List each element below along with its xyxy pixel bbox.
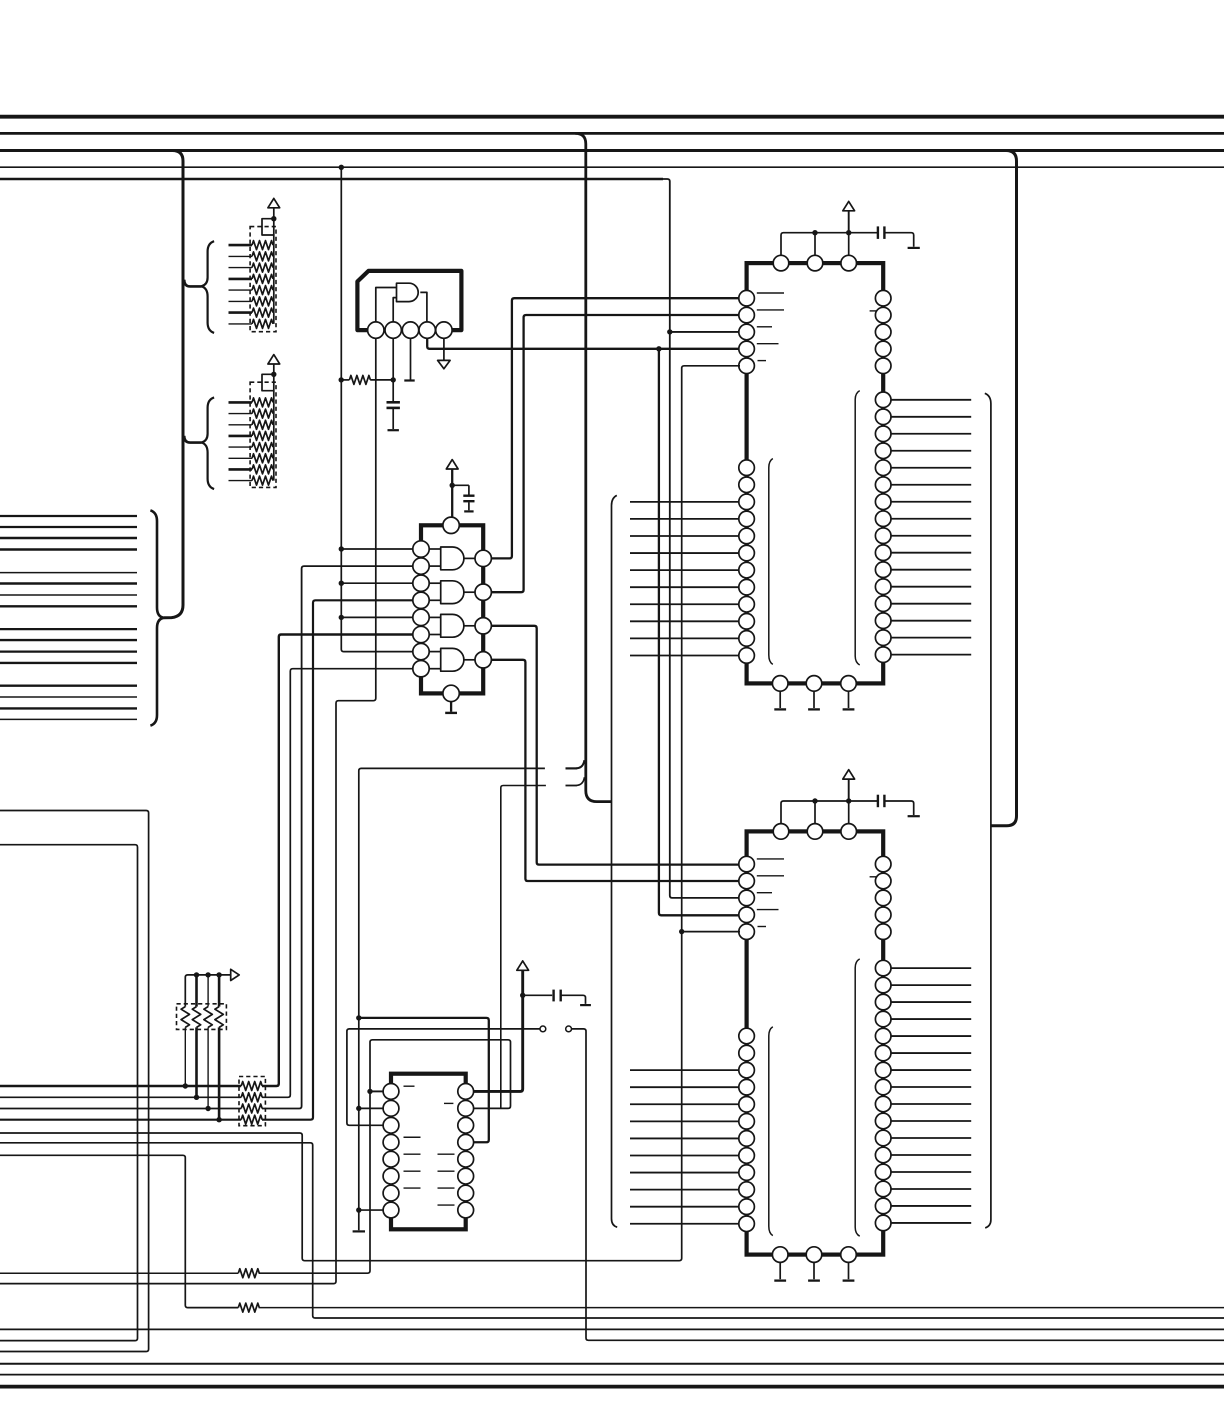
wire RN1 lead 2 — [229, 255, 253, 257]
resistor network RN3 dashed outline — [177, 1004, 227, 1030]
wire U2 gate3 input B — [429, 634, 441, 636]
wire U4 right wire 15 — [891, 1205, 971, 1207]
node U3 VCC rail junction 1 — [812, 230, 817, 235]
node U3 lower-left pin 10 — [739, 614, 755, 630]
wire U2 gate2 input A — [429, 582, 441, 584]
wire U3 lower-left wire 10 — [630, 620, 740, 622]
wire bottom bus line B — [0, 1363, 1224, 1365]
wire U1 output to IC1 pin 4 — [427, 338, 740, 349]
wire U4 right wire 14 — [891, 1188, 971, 1190]
node U3 lower-left pin 4 — [739, 511, 755, 527]
wire bottom bus 1307 right segment — [259, 1307, 1224, 1309]
wire RN2 brace to trunk — [184, 436, 201, 443]
wire U4 right wire 13 — [891, 1171, 971, 1173]
resistor RN2-7 — [252, 465, 273, 474]
wire U3 lower-left wire 7 — [630, 569, 740, 571]
wire U4 lower-left wire 5 — [630, 1103, 740, 1105]
wire data bus line 15 — [0, 707, 137, 709]
wire y768 line and x358.8 vertical to ground — [359, 768, 545, 1230]
wire U3 pin-top3 stem — [848, 233, 850, 255]
node U5 left pin 8 — [383, 1202, 399, 1218]
node RN3 rail junction x=219.1 — [216, 972, 221, 977]
wire loop rectangle A — [0, 811, 149, 1352]
wire U3 right wire 14 — [891, 620, 971, 622]
ground bar U3 bottom pin2 — [808, 708, 820, 710]
wire U3 right wire 13 — [891, 603, 971, 605]
resistor RN1-7 — [252, 308, 273, 317]
wire U5 pin L3 to switch — [347, 1029, 540, 1125]
node U4 VCC rail junction 1 — [812, 798, 817, 803]
ground bar U3 bottom pin1 — [774, 708, 786, 710]
wire U1 gate input 2 to pin 2 — [393, 298, 396, 322]
bracket U3 inner right — [855, 391, 860, 665]
wire U2 gate1 output — [464, 557, 475, 559]
wire U1 pin2 down — [392, 338, 394, 402]
node U4 top pin 3 — [841, 824, 857, 840]
node U4 lower-right pin 15 — [875, 1198, 891, 1214]
wire U2 out1 to IC1 pin1 — [475, 298, 740, 558]
wire U3 right wire 5 — [891, 467, 971, 469]
node U3 lower-left pin 9 — [739, 596, 755, 612]
IC U5 body — [391, 1074, 466, 1230]
wire C1 to ground — [392, 408, 394, 429]
node U4 left pin 1 — [739, 856, 755, 872]
node U3 lower-right pin 5 — [875, 460, 891, 476]
wire RN1 lead 5 — [229, 289, 253, 291]
node U3 lower-left pin 5 — [739, 528, 755, 544]
wire U4 right wire 1 — [891, 967, 971, 969]
node R1 / common vertical junction — [339, 377, 344, 382]
node U4 lower-right pin 14 — [875, 1181, 891, 1197]
wire RN2 lead 4 — [229, 435, 253, 438]
node U3 lower-right pin 12 — [875, 579, 891, 595]
wire R1 left lead — [341, 379, 349, 381]
wire U2 VCC stem — [451, 469, 453, 517]
capacitor C5 right plate — [560, 990, 562, 1002]
node U3 left pin 5 — [739, 358, 755, 374]
wire U3 right wire 12 — [891, 586, 971, 588]
node RN2 common — [271, 372, 276, 377]
wire data bus line 10 — [0, 639, 137, 641]
ground bar U1 pin3 — [404, 379, 414, 381]
wire RN1 brace to trunk — [184, 280, 201, 287]
node U3 lower-left pin 12 — [739, 648, 755, 664]
wire RN2 common rail — [273, 374, 275, 480]
capacitor C1 bottom plate — [387, 407, 400, 410]
wire U2 gate2 output — [464, 591, 475, 593]
wire switch to bottom bus line — [572, 1029, 1224, 1340]
wire U3 right wire 8 — [891, 518, 971, 520]
node U1 pin 2 — [385, 322, 401, 338]
node RN3 rail junction x=196.5 — [194, 972, 199, 977]
node U4 lower-left pin 2 — [739, 1045, 755, 1061]
wire U4 right wire 11 — [891, 1137, 971, 1139]
node U1 pin 4 — [419, 322, 435, 338]
resistor network RN1 dashed outline — [250, 227, 276, 332]
wire U3 left pin4 label stub — [757, 343, 779, 345]
wire R1 right lead — [370, 379, 393, 381]
node junction line4 / common vertical — [339, 165, 344, 170]
node U3 lower-right pin 2 — [875, 409, 891, 425]
wire bus trunk right (x=1016.5) with hook to bracket — [991, 151, 1017, 826]
node U3 lower-left pin 2 — [739, 477, 755, 493]
wire top bus line 3 — [0, 149, 1224, 152]
node U3 top pin 2 — [807, 255, 823, 271]
wire U2 out2 to IC1 pin2 — [475, 315, 740, 592]
wire U5 right label stub — [438, 1170, 455, 1172]
wire C2 stem bottom — [468, 502, 470, 510]
wire U5 pin L2 — [359, 1107, 385, 1109]
node U4 VCC rail junction 2 — [846, 798, 851, 803]
node U4 right upper pin 2 — [875, 873, 891, 889]
wire top bus line 1 — [0, 115, 1224, 119]
wire U5 right label stub — [438, 1204, 455, 1206]
wire y768 right stub — [566, 767, 578, 769]
wire U5 pin R1 to VCC — [472, 970, 523, 1091]
bracket U4 inner left — [769, 1027, 773, 1236]
wire bus line y=1097.3 left — [0, 1096, 241, 1098]
wire top bus line 5 — [0, 178, 663, 180]
wire C2 stem top — [468, 485, 470, 494]
resistor RN2-5 — [252, 443, 273, 452]
node U3 right upper pin 3 — [875, 324, 891, 340]
resistor RN4-3 — [241, 1104, 262, 1113]
node U3 top pin 3 — [841, 255, 857, 271]
wire U3 bottom pin3 ground stem — [848, 691, 850, 708]
gate U2 AND 1 — [441, 547, 464, 570]
brace RN2 — [201, 397, 214, 489]
IC U2 quad AND body — [421, 525, 483, 693]
wire U5 left label stub — [404, 1187, 421, 1189]
node U5 left pin 7 — [383, 1185, 399, 1201]
wire U4 right wire 7 — [891, 1069, 971, 1071]
wire U3 right wire 15 — [891, 637, 971, 639]
resistor RN1-1 — [252, 241, 273, 250]
wire U4 right wire 16 — [891, 1222, 971, 1224]
node U2 input pin 1 — [413, 541, 429, 557]
node U4 lower-left pin 11 — [739, 1199, 755, 1215]
wire U2 input from common net y=617.4 — [341, 616, 413, 618]
wire RN3 top rail — [185, 975, 230, 1007]
node U3 lower-right pin 3 — [875, 426, 891, 442]
wire U4 right wire 2 — [891, 984, 971, 986]
wire RN3 resistor to bus y=1097.3 — [195, 1027, 198, 1097]
node U3 lower-left pin 1 — [739, 460, 755, 476]
wire U3 left pin1 label stub — [757, 292, 784, 294]
node U4 left pin 3 — [739, 890, 755, 906]
node U4 right upper pin 4 — [875, 907, 891, 923]
wire bottom bus line D (thick) — [0, 1385, 1224, 1389]
node common input junction y=617.4 — [339, 615, 344, 620]
node U3 lower-right pin 13 — [875, 596, 891, 612]
wire data bus line 6 — [0, 582, 137, 584]
wire data bus line 8 — [0, 605, 137, 607]
node U3 lower-right pin 6 — [875, 477, 891, 493]
node U3 lower-right pin 8 — [875, 511, 891, 527]
node U3 lower-right pin 4 — [875, 443, 891, 459]
wire U3 VCC rail — [781, 233, 878, 255]
wire y768 merge curve into trunk — [566, 760, 585, 768]
capacitor U4 decoupling left plate — [877, 795, 879, 808]
wire U4 VCC rail — [781, 801, 878, 823]
wire bottom bus line C — [0, 1374, 1224, 1376]
node U2 input pin 2 — [413, 558, 429, 574]
wire common input net from line4 to U2 pin7 — [341, 167, 413, 651]
node U5 L1 junction — [367, 1089, 372, 1094]
node U4 lower-right pin 6 — [875, 1045, 891, 1061]
wire U3 right wire 7 — [891, 501, 971, 503]
wire data bus line 13 — [0, 685, 137, 687]
node U3 lower-right pin 14 — [875, 613, 891, 629]
resistor R7 in-line — [238, 1303, 259, 1312]
resistor R1 — [349, 375, 370, 384]
node U4 bottom pin 1 — [772, 1247, 788, 1263]
wire data bus line 2 — [0, 526, 137, 528]
node U5 left pin 1 — [383, 1084, 399, 1100]
wire data bus line 1 — [0, 515, 137, 517]
brace left data bus — [150, 510, 163, 725]
capacitor U4 decoupling right plate — [883, 795, 885, 808]
wire U4 lower-left wire 3 — [630, 1069, 740, 1071]
wire U4 pin-top2 stem — [814, 801, 816, 823]
bracket U3 inner left — [769, 459, 773, 665]
resistor RN1-2 — [252, 252, 273, 261]
node U3 left pin 4 — [739, 341, 755, 357]
node RN3 / bus junction (185.3,1086) — [183, 1083, 188, 1088]
ground bar C5 — [580, 1004, 591, 1006]
wire U3 bottom pin1 ground stem — [779, 691, 781, 708]
node U2 input pin 3 — [413, 575, 429, 591]
wire U5 left label stub — [404, 1136, 421, 1138]
wire RN2 lead 8 — [229, 480, 253, 482]
node U4 lower-left pin 7 — [739, 1131, 755, 1147]
wire data bus line 14 — [0, 696, 137, 698]
resistor RN1-4 — [252, 274, 273, 283]
wire U2 gate4 input B — [429, 668, 441, 670]
node U3 lower-left pin 6 — [739, 545, 755, 561]
resistor RN3-3 — [204, 1007, 212, 1028]
node U4 left pin 2 — [739, 873, 755, 889]
node U4 lower-left pin 1 — [739, 1028, 755, 1044]
wire data bus line 3 — [0, 537, 137, 539]
gate U2 AND 3 — [441, 614, 464, 637]
wire U4 right pin2 label stub — [870, 876, 880, 878]
node U3 lower-right pin 10 — [875, 545, 891, 561]
wire IC1 pin 3 from line 5 — [670, 331, 740, 333]
node U5 right pin 3 — [458, 1117, 474, 1133]
wire U3 right wire 6 — [891, 484, 971, 486]
wire bottom bus line A — [0, 1328, 1224, 1330]
node U3 left pin 3 — [739, 324, 755, 340]
wire top bus line 4 — [0, 166, 1224, 168]
node common input junction y=583.2 — [339, 581, 344, 586]
wire U4 right wire 9 — [891, 1103, 971, 1105]
bracket right IC wire group — [985, 393, 991, 1228]
resistor RN3-1 — [181, 1007, 189, 1028]
wire RN2 common pin box — [262, 374, 274, 390]
capacitor U3 decoupling right plate — [883, 226, 885, 239]
gate U2 AND 4 — [441, 648, 464, 671]
wire U2 input from common net y=583.2 — [341, 582, 413, 584]
resistor RN4-4 — [241, 1115, 262, 1124]
wire data bus line 11 — [0, 650, 137, 652]
node U2 output pin 3 — [475, 618, 491, 634]
wire U3 right wire 10 — [891, 552, 971, 554]
wire U4 lower-left wire 4 — [630, 1086, 740, 1088]
wire U3 lower-left wire 11 — [630, 637, 740, 639]
wire RN1 lead 8 — [229, 323, 253, 325]
wire y785 merge curve into trunk — [566, 777, 585, 785]
node U4 right upper pin 3 — [875, 890, 891, 906]
wire bus trunk left (x=183) from line3 to brace — [164, 151, 183, 618]
node U4 lower-left pin 9 — [739, 1165, 755, 1181]
wire RN3 resistor to bus y=1108.5 — [207, 1027, 209, 1108]
wire data bus line 7 — [0, 594, 137, 596]
wire RN1 common rail — [273, 219, 275, 324]
capacitor U3 decoupling left plate — [877, 226, 879, 239]
wire U4 lower-left wire 10 — [630, 1189, 740, 1191]
wire U3 lower-left wire 9 — [630, 603, 740, 605]
wire U2 gate4 input A — [429, 651, 441, 653]
ground bar U4 bottom pin1 — [774, 1279, 786, 1281]
wire U3 cap to ground — [884, 233, 913, 247]
wire loop rectangle B — [0, 845, 138, 1341]
wire U1 gate output to pin 4 — [420, 292, 427, 322]
wire bus line y=1086 left — [0, 1085, 241, 1087]
node U5 left pin 5 — [383, 1151, 399, 1167]
node U3 lower-right pin 9 — [875, 528, 891, 544]
wire U5 right label stub — [438, 1187, 455, 1189]
node U4 lower-left pin 12 — [739, 1216, 755, 1232]
resistor RN2-2 — [252, 409, 273, 418]
wire U4 bottom pin2 ground stem — [813, 1262, 815, 1279]
node U3 bottom pin 2 — [806, 676, 822, 692]
wire U5 left label stub — [404, 1153, 421, 1155]
node junction x682 / IC2 pin5 — [679, 929, 684, 934]
wire RN1 lead 6 — [229, 300, 253, 302]
wire U5 right label stub — [438, 1153, 455, 1155]
wire data bus line 9 — [0, 628, 137, 630]
wire y785 right stub — [566, 785, 578, 787]
node U1 pin 5 — [436, 322, 452, 338]
wire U1 gate input 1 to pin 1 — [376, 288, 397, 323]
wire line 5 corner down to IC2 pin 3 — [663, 179, 740, 898]
wire bottom bus 1273 left segment — [0, 1272, 238, 1274]
wire U4 right wire 4 — [891, 1018, 971, 1020]
capacitor C5 left plate — [552, 990, 554, 1002]
wire U3 right wire 11 — [891, 569, 971, 571]
ground bar U4 bottom pin2 — [808, 1279, 820, 1281]
wire U2 gate1 input B — [429, 565, 441, 567]
wire U4 cap to ground — [884, 801, 913, 815]
power VCC symbol RN1 — [268, 198, 280, 207]
wire U3 VCC stem — [848, 211, 850, 233]
ground bar U4 bottom pin3 — [843, 1279, 855, 1281]
power VCC symbol U2 — [446, 460, 458, 469]
node U3 lower-right pin 7 — [875, 494, 891, 510]
wire RN2 VCC stem — [273, 364, 275, 374]
wire U3 right wire 9 — [891, 535, 971, 537]
wire U4 pin-top3 stem — [848, 801, 850, 823]
wire U4 right wire 12 — [891, 1154, 971, 1156]
power VCC symbol RN2 — [268, 355, 280, 364]
resistor R6 in-line — [238, 1269, 259, 1278]
wire U4 bottom pin1 ground stem — [779, 1262, 781, 1279]
node U4 lower-left pin 6 — [739, 1114, 755, 1130]
node U4 lower-right pin 2 — [875, 977, 891, 993]
wire bus trunk center (x=585.8) from line 2 with hook — [575, 133, 611, 801]
wire U2 out4 to IC2 pin2 — [475, 660, 740, 881]
wire U2 gate3 output — [464, 625, 475, 627]
node U3 lower-left pin 11 — [739, 631, 755, 647]
resistor RN2-8 — [252, 476, 273, 485]
wire U3 lower-left wire 6 — [630, 552, 740, 554]
wire U3 lower-left wire 8 — [630, 586, 740, 588]
wire U4 lower-left wire 11 — [630, 1206, 740, 1208]
node U4 lower-right pin 9 — [875, 1096, 891, 1112]
wire data bus line 5 — [0, 572, 137, 574]
wire VCC to C5 — [523, 994, 553, 996]
node U4 lower-right pin 4 — [875, 1011, 891, 1027]
node junction line5 / IC1 pin3 wire — [667, 329, 672, 334]
node U2 VCC junction — [450, 483, 455, 488]
node U3 lower-right pin 1 — [875, 392, 891, 408]
wire U4 left pin3 label stub — [757, 892, 772, 894]
node U2 output pin 1 — [475, 550, 491, 566]
wire U4 right wire 3 — [891, 1001, 971, 1003]
wire RN1 common pin box — [262, 219, 274, 235]
node RN3 / bus junction (208.1,1108.5) — [205, 1106, 210, 1111]
resistor RN3-2 — [192, 1007, 200, 1028]
node U5 right pin 4 — [458, 1134, 474, 1150]
resistor RN1-6 — [252, 297, 273, 306]
wire U4 left pin5 label stub — [758, 926, 767, 928]
node U4 lower-right pin 10 — [875, 1113, 891, 1129]
wire RN2 lead 2 — [229, 413, 253, 415]
node U2 input pin 4 — [413, 592, 429, 608]
node U3 VCC rail junction 2 — [846, 230, 851, 235]
wire U5 pin L1 — [370, 1090, 385, 1092]
node U1 pin 1 — [368, 322, 384, 338]
node U5 right pin 1 — [458, 1084, 474, 1100]
wire U3 left pin2 label stub — [757, 309, 784, 311]
wire U1 pin3 to ground — [410, 338, 412, 380]
wire U4 right wire 5 — [891, 1035, 971, 1037]
wire RN3 drop x=219.1 — [218, 975, 221, 1007]
resistor RN4-2 — [241, 1093, 262, 1102]
node common input junction y=549 — [339, 546, 344, 551]
node U4 lower-right pin 3 — [875, 994, 891, 1010]
wire U3 lower-left wire 5 — [630, 535, 740, 537]
switch SW1 contact left — [540, 1026, 546, 1032]
bracket U4 inner right — [855, 959, 860, 1236]
wire U3 left pin3 label stub — [757, 326, 772, 328]
wire U2 gate4 output — [464, 659, 475, 661]
node U4 bottom pin 3 — [841, 1247, 857, 1263]
node U5 L2 junction — [356, 1106, 361, 1111]
wire U4 left pin4 label stub — [757, 909, 779, 911]
resistor network RN2 dashed outline — [250, 382, 276, 487]
node U4 lower-right pin 8 — [875, 1079, 891, 1095]
capacitor C2 top plate — [463, 495, 474, 497]
wire RN2 lead 6 — [229, 457, 253, 459]
wire U4 left pin2 label stub — [757, 875, 784, 877]
brace RN1 — [201, 241, 214, 333]
node U2 VCC pin — [443, 517, 459, 533]
node U3 left pin 1 — [739, 290, 755, 306]
wire bus y=1119.7 to U2 input — [262, 600, 413, 1119]
wire branch to IC2 pin 4 — [659, 349, 740, 916]
